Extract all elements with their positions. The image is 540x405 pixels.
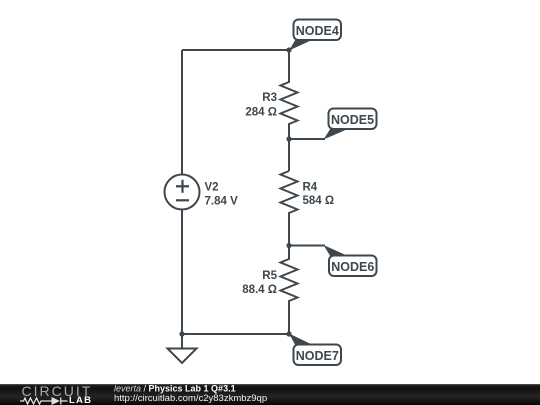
wire R3 to R4 [288,139,290,171]
svg-text:NODE7: NODE7 [296,349,339,363]
node label box NODE5 [329,109,377,130]
node label box NODE6 [329,256,377,277]
junction node at NODE7 [286,331,291,336]
junction node ground [179,331,184,336]
junction node at NODE5 [286,136,291,141]
resistor R4 [281,171,298,246]
svg-text:LAB: LAB [69,395,92,405]
svg-text:R4: R4 [303,182,318,194]
svg-text:88.4 Ω: 88.4 Ω [242,284,277,296]
svg-text:584 Ω: 584 Ω [303,195,335,207]
junction node at NODE6 [286,243,291,248]
svg-text:NODE6: NODE6 [331,260,374,274]
flag tail NODE6 [324,245,350,257]
wire node6 stub [289,245,325,247]
logo diode triangle [52,397,61,405]
ground [181,334,183,349]
svg-text:7.84 V: 7.84 V [205,196,239,208]
svg-text:http://circuitlab.com/c2y83zkm: http://circuitlab.com/c2y83zkmbz9qp [114,393,267,404]
resistor R5 [281,246,298,335]
svg-text:R5: R5 [262,270,277,282]
svg-text:NODE5: NODE5 [331,113,374,127]
wire left rail lower [181,210,183,335]
wire left rail upper [181,50,183,175]
node label box NODE4 [294,20,342,41]
node label box NODE7 [294,345,342,366]
svg-text:V2: V2 [205,182,219,194]
flag tail NODE4 [289,40,313,51]
wire node5 stub [289,138,325,140]
resistor R3 [281,50,298,139]
voltage source V2 [165,175,200,210]
svg-text:NODE4: NODE4 [296,24,339,38]
logo resistor squiggle and diode [20,398,68,405]
wire top horizontal [182,49,289,51]
flag tail NODE5 [324,129,350,140]
wire bottom horizontal [182,333,289,335]
junction node at NODE4 [286,47,291,52]
flag tail NODE7 [289,334,314,346]
svg-text:R3: R3 [262,92,277,104]
svg-text:284 Ω: 284 Ω [245,107,277,119]
